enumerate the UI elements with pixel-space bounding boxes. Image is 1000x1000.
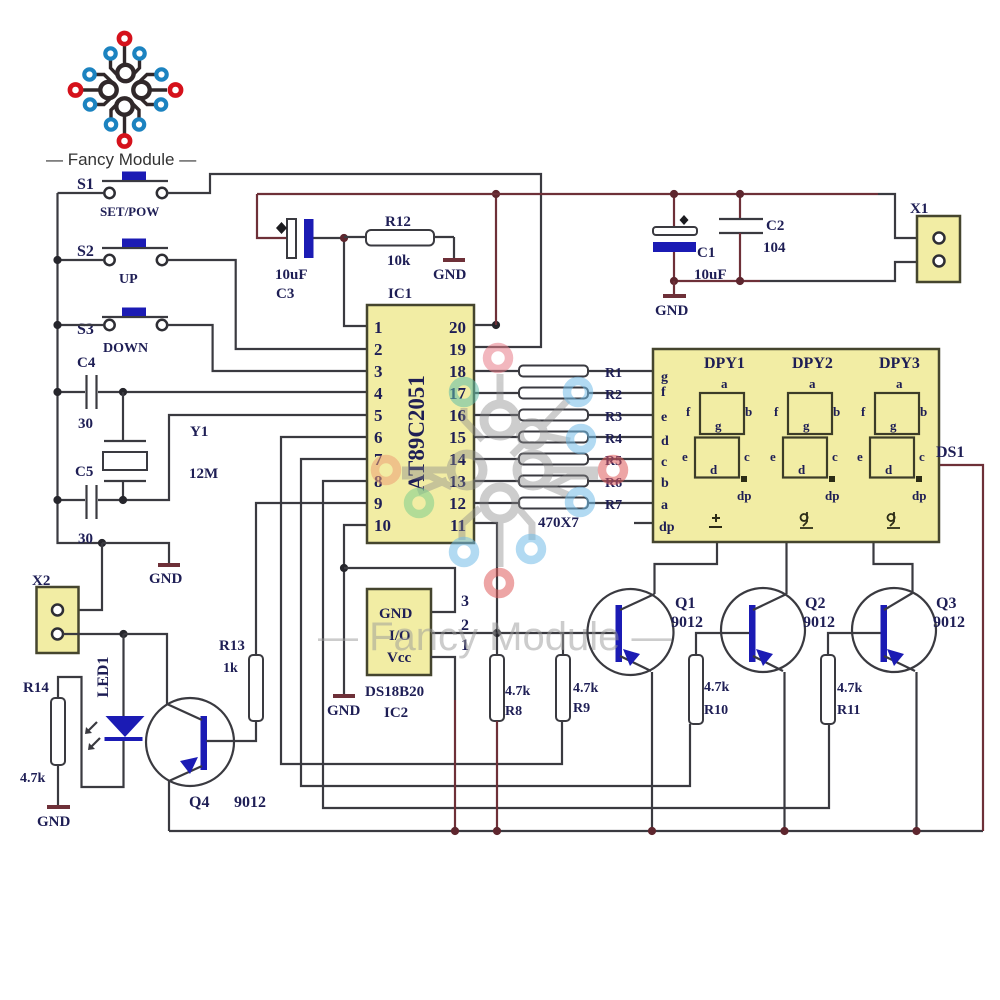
wire S1 left — [58, 192, 105, 194]
wire Q2 collector to DPY2 — [785, 542, 787, 594]
svg-text:GND: GND — [149, 571, 183, 587]
svg-text:d: d — [661, 434, 669, 449]
svg-text:X1: X1 — [910, 201, 928, 217]
svg-text:GND: GND — [433, 267, 467, 283]
node C5 crystal — [119, 496, 127, 504]
svg-text:b: b — [745, 404, 752, 419]
svg-text:12: 12 — [449, 494, 466, 513]
ground C1 — [655, 296, 689, 319]
wire LED to R14 — [58, 677, 124, 787]
svg-text:R10: R10 — [704, 703, 728, 718]
node bus R8 — [493, 827, 501, 835]
svg-text:a: a — [661, 498, 668, 513]
node C3 R12 — [340, 234, 348, 242]
wire node down to LED — [122, 634, 124, 717]
wire Q4 emitter to bus — [168, 780, 170, 831]
wire C4 to IC1 pin4 — [98, 391, 367, 393]
svg-text:4.7k: 4.7k — [837, 681, 863, 696]
svg-text:5: 5 — [374, 406, 383, 425]
IC U1 AT89C2051 — [367, 286, 474, 543]
svg-text:C2: C2 — [766, 218, 784, 234]
wire C1 C2 bottom to X1 — [674, 280, 760, 282]
svg-text:C5: C5 — [75, 464, 93, 480]
wire to GND near crystal — [102, 543, 169, 563]
svg-text:c: c — [661, 455, 667, 470]
node bus Q3 — [912, 827, 920, 835]
svg-text:19: 19 — [449, 340, 466, 359]
node S3 bus — [53, 321, 61, 329]
wire R14 to GND — [57, 765, 59, 805]
resistor R3 — [474, 410, 653, 426]
svg-text:SET/POW: SET/POW — [100, 204, 159, 219]
svg-text:Y1: Y1 — [190, 424, 208, 440]
node IO — [493, 629, 501, 637]
svg-text:e: e — [770, 449, 776, 464]
svg-text:b: b — [661, 476, 669, 491]
svg-text:c: c — [744, 449, 750, 464]
svg-text:f: f — [861, 404, 866, 419]
svg-text:f: f — [686, 404, 691, 419]
node bus Q2 — [780, 827, 788, 835]
svg-text:GND: GND — [655, 303, 689, 319]
transistor Q4 — [146, 698, 266, 811]
resistor R8 — [490, 655, 531, 721]
svg-text:S1: S1 — [77, 176, 94, 193]
node C4 crystal — [119, 388, 127, 396]
svg-text:4.7k: 4.7k — [505, 684, 531, 699]
svg-text:DPY1: DPY1 — [704, 355, 745, 372]
svg-text:dp: dp — [737, 488, 751, 503]
svg-text:dp: dp — [825, 488, 839, 503]
node C1 rail — [670, 190, 678, 198]
wire IC1 pin8 to R11 — [323, 481, 829, 808]
wire IC1 pin20 to VCC rail — [474, 324, 496, 326]
svg-text:e: e — [682, 449, 688, 464]
connector X1 — [910, 201, 960, 282]
svg-text:S2: S2 — [77, 243, 94, 260]
resistor R9 — [556, 655, 599, 721]
svg-text:— Fancy Module —: — Fancy Module — — [46, 150, 196, 169]
wire X2 pin2 to node — [63, 633, 124, 635]
svg-text:20: 20 — [449, 318, 466, 337]
svg-text:R13: R13 — [219, 638, 245, 654]
resistor R11 — [821, 655, 863, 724]
wire DS18B20 pin1 to bus — [431, 657, 455, 831]
resistor R12 — [344, 214, 454, 269]
svg-text:R1: R1 — [605, 366, 622, 381]
svg-text:3: 3 — [461, 593, 469, 610]
wire IC1 pin10 to GND — [344, 525, 367, 694]
svg-text:DPY2: DPY2 — [792, 355, 833, 372]
svg-text:R14: R14 — [23, 680, 49, 696]
svg-text:g: g — [803, 418, 810, 433]
wire IO row to Q1 base — [431, 632, 616, 634]
svg-text:f: f — [774, 404, 779, 419]
wire S2 right to IC1 pin2 — [167, 260, 367, 349]
svg-text:GND: GND — [327, 703, 361, 719]
svg-text:1k: 1k — [223, 661, 238, 676]
svg-text:— Fancy Module —: — Fancy Module — — [318, 615, 671, 659]
ground R12 — [433, 260, 467, 283]
svg-text:X2: X2 — [32, 573, 50, 589]
wire Q4 base to R13 — [207, 721, 257, 741]
IC IC2 DS18B20 — [365, 589, 469, 721]
switch S1 — [77, 172, 168, 220]
resistor R2 — [474, 388, 653, 404]
resistor R5 — [474, 454, 653, 470]
wire R13 to IC1 pin9 — [256, 503, 367, 655]
LED LED1 — [85, 657, 145, 750]
svg-text:Q3: Q3 — [936, 595, 956, 612]
svg-text:12M: 12M — [189, 466, 218, 482]
wire IC1 pin1 to C3 node — [344, 238, 367, 326]
wire C5 to IC1 pin5 — [98, 415, 367, 500]
svg-text:IC1: IC1 — [388, 286, 412, 302]
7-segment digit DPY3 — [857, 376, 927, 528]
node bus bottom — [98, 539, 106, 547]
svg-text:R2: R2 — [605, 388, 622, 403]
svg-text:c: c — [919, 449, 925, 464]
svg-text:Q1: Q1 — [675, 595, 695, 612]
wire S3 right to IC1 pin3 — [167, 325, 367, 371]
svg-text:9012: 9012 — [671, 614, 703, 631]
wire Q2 base from R10 — [696, 633, 749, 655]
connector X2 — [32, 573, 79, 653]
node C2 bottom — [736, 277, 744, 285]
capacitor C1 — [653, 194, 727, 283]
svg-text:dp: dp — [912, 488, 926, 503]
switch S2 — [77, 239, 168, 288]
capacitor C5 — [75, 464, 97, 547]
svg-text:4: 4 — [374, 384, 383, 403]
svg-text:R12: R12 — [385, 214, 411, 230]
svg-text:30: 30 — [78, 531, 93, 547]
svg-text:9: 9 — [374, 494, 383, 513]
resistor R13 — [219, 638, 263, 721]
node bus DS18B20 vcc — [451, 827, 459, 835]
svg-text:R8: R8 — [505, 704, 522, 719]
capacitor C2 — [719, 194, 786, 281]
node pin20 — [492, 321, 500, 329]
svg-text:b: b — [833, 404, 840, 419]
wire Q1 collector to DPY1 — [655, 542, 718, 594]
node VCC rail — [492, 190, 500, 198]
resistor R6 — [474, 476, 653, 492]
wire GND node to DS18B20 pin3 — [344, 568, 455, 612]
node C5 bus — [53, 496, 61, 504]
svg-text:Q2: Q2 — [805, 595, 825, 612]
svg-text:10uF: 10uF — [275, 267, 308, 283]
svg-text:R3: R3 — [605, 410, 622, 425]
svg-text:9012: 9012 — [234, 794, 266, 811]
ground DS18B20 — [327, 696, 361, 719]
svg-text:3: 3 — [374, 362, 383, 381]
crystal Y1 — [103, 392, 218, 500]
wire S2 left — [58, 259, 105, 261]
wire C4 row — [58, 391, 86, 393]
svg-text:IC2: IC2 — [384, 705, 408, 721]
svg-text:dp: dp — [659, 520, 675, 535]
wire R9 drop — [562, 633, 564, 655]
svg-text:e: e — [661, 410, 667, 425]
svg-text:d: d — [885, 462, 893, 477]
svg-text:30: 30 — [78, 416, 93, 432]
svg-text:4.7k: 4.7k — [20, 771, 46, 786]
node GND DS18B20 — [340, 564, 348, 572]
transistor Q1 — [588, 589, 704, 675]
wire S3 left — [58, 324, 105, 326]
resistor R4 — [474, 432, 653, 448]
svg-text:470X7: 470X7 — [538, 515, 579, 531]
svg-text:DPY3: DPY3 — [879, 355, 920, 372]
wire IC1 pin11 down — [474, 523, 497, 655]
svg-text:2: 2 — [374, 340, 383, 359]
svg-text:a: a — [809, 376, 816, 391]
svg-text:C1: C1 — [697, 245, 715, 261]
svg-text:R7: R7 — [605, 498, 622, 513]
svg-text:g: g — [715, 418, 722, 433]
wire IC1 pin6 to R9 — [281, 437, 562, 764]
wire node to Q4 collector — [124, 634, 168, 705]
svg-text:DS1: DS1 — [936, 444, 964, 461]
7-segment digit DPY2 — [770, 376, 840, 528]
svg-text:10k: 10k — [387, 253, 411, 269]
svg-text:LED1: LED1 — [95, 657, 112, 698]
wire Q3 emitter to bus — [915, 672, 917, 831]
node S2 bus — [53, 256, 61, 264]
resistor R7 — [474, 498, 653, 514]
svg-text:6: 6 — [374, 428, 383, 447]
resistor R1 — [474, 366, 653, 382]
resistor R10 — [689, 655, 730, 724]
svg-text:Q4: Q4 — [189, 794, 209, 811]
ground R14 — [37, 807, 71, 830]
wire IC1 pin7 to R10 — [301, 459, 690, 786]
wire left bus — [58, 193, 103, 543]
logo Fancy Module — [82, 45, 167, 134]
wire VCC vertical — [495, 194, 497, 325]
svg-text:c: c — [832, 449, 838, 464]
svg-text:e: e — [857, 449, 863, 464]
transistor Q2 — [721, 588, 835, 672]
svg-text:9012: 9012 — [933, 614, 965, 631]
wire C5 row — [58, 499, 86, 501]
wire R12 to GND — [453, 237, 455, 259]
node LED — [119, 630, 127, 638]
svg-text:104: 104 — [763, 240, 786, 256]
svg-text:a: a — [721, 376, 728, 391]
wire Q3 collector to DPY3 — [874, 542, 913, 593]
wire dp stub — [634, 522, 653, 524]
svg-text:C4: C4 — [77, 355, 96, 371]
svg-text:R9: R9 — [573, 701, 590, 716]
capacitor C4 — [77, 355, 97, 432]
svg-text:R4: R4 — [605, 432, 622, 447]
7-segment digit DPY1 — [682, 376, 752, 527]
svg-text:1: 1 — [374, 318, 383, 337]
wire Q3 base from R11 — [828, 633, 881, 655]
wire C1 to GND — [673, 281, 675, 294]
node C1 bottom — [670, 277, 678, 285]
svg-text:g: g — [890, 418, 897, 433]
wire VCC rail — [257, 193, 878, 195]
wire R8 to bus — [496, 721, 498, 831]
svg-text:g: g — [661, 370, 668, 385]
svg-text:C3: C3 — [276, 286, 294, 302]
svg-text:b: b — [920, 404, 927, 419]
capacitor C3 — [257, 194, 343, 302]
resistor R14 — [20, 680, 65, 786]
svg-text:15: 15 — [449, 428, 466, 447]
node C4 bus — [53, 388, 61, 396]
svg-text:a: a — [896, 376, 903, 391]
svg-text:9012: 9012 — [803, 614, 835, 631]
svg-text:4.7k: 4.7k — [573, 681, 599, 696]
wire bus to X2 pin1 — [64, 543, 102, 610]
svg-text:4.7k: 4.7k — [704, 680, 730, 695]
transistor Q3 — [852, 588, 965, 672]
svg-text:d: d — [710, 462, 718, 477]
svg-text:d: d — [798, 462, 806, 477]
ground crystal — [149, 565, 183, 587]
svg-text:UP: UP — [119, 272, 138, 287]
svg-text:10: 10 — [374, 516, 391, 535]
display DS1 box — [653, 349, 939, 542]
node bus Q1 — [648, 827, 656, 835]
svg-text:R11: R11 — [837, 703, 860, 718]
svg-text:DS18B20: DS18B20 — [365, 684, 424, 700]
svg-text:GND: GND — [37, 814, 71, 830]
node C2 rail — [736, 190, 744, 198]
svg-text:f: f — [661, 385, 666, 400]
wire Q2 emitter to bus — [783, 672, 785, 831]
wire S1 right to top rail to IC1 pin19 — [167, 174, 541, 347]
svg-text:DOWN: DOWN — [103, 341, 148, 356]
switch S3 — [77, 308, 168, 357]
wire bottom bus — [169, 830, 983, 832]
wire Q1 emitter to bus — [651, 672, 653, 831]
svg-text:S3: S3 — [77, 321, 94, 338]
